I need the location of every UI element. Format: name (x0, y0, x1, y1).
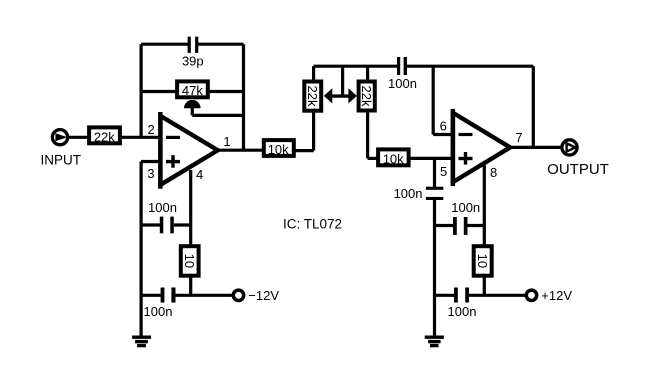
svg-text:5: 5 (440, 164, 447, 179)
wire ground vertical left (140, 162, 143, 337)
wire pin3 (141, 160, 159, 163)
wire pin6 (433, 133, 452, 136)
output connector J2 (562, 140, 577, 155)
svg-text:10k: 10k (383, 152, 404, 167)
capacitor 100n (top middle) (397, 57, 407, 75)
svg-text:INPUT: INPUT (41, 153, 82, 168)
svg-text:100n: 100n (451, 200, 480, 215)
svg-text:10: 10 (475, 254, 490, 268)
wire pin8 stub down (483, 165, 486, 246)
wire feedback vertical left (140, 44, 143, 137)
wire input to 22k (69, 136, 88, 139)
svg-text:2: 2 (147, 122, 154, 137)
capacitor 100n (series, right) (426, 187, 443, 200)
wire 10 to bottom rail right (483, 278, 486, 296)
minus sign U1B (459, 133, 473, 136)
wire 47k row right (209, 90, 244, 93)
svg-text:47k: 47k (182, 83, 203, 98)
plus sign U1A (166, 155, 180, 168)
ground (left) (132, 337, 151, 345)
svg-text:+12V: +12V (541, 288, 572, 303)
svg-text:100n: 100n (144, 304, 173, 319)
svg-text:6: 6 (440, 118, 447, 133)
svg-text:IC: TL072: IC: TL072 (283, 216, 342, 231)
resistor 10 (right) (474, 246, 492, 276)
capacitor 100n (left upper) (141, 217, 191, 234)
svg-text:7: 7 (515, 130, 522, 145)
op-amp U1A (158, 112, 218, 189)
wire pin4 stub down (189, 170, 192, 246)
wiper arrow of 47k (184, 100, 244, 116)
wire 22k to pin2 (121, 136, 159, 139)
svg-text:22k: 22k (305, 86, 320, 107)
plus sign U1B (459, 152, 473, 165)
potentiometer 22k (right gang) (359, 82, 375, 111)
svg-text:1: 1 (223, 134, 230, 149)
svg-text:100n: 100n (148, 200, 177, 215)
wire pot2 bottom to 10k (368, 112, 377, 158)
svg-text:−12V: −12V (248, 288, 279, 303)
wire ground vertical right (433, 200, 436, 337)
svg-text:22k: 22k (94, 130, 115, 145)
resistor 10 (left) (181, 246, 199, 276)
wire feedback vertical right (242, 44, 245, 150)
svg-text:100n: 100n (394, 186, 423, 201)
wire 47k row left (141, 90, 176, 93)
wire 10 to bottom rail (189, 278, 192, 296)
wire 10k to pin5 (410, 157, 453, 160)
bottom rail right / capacitor 100n (right lower) (435, 288, 526, 303)
wire pot1 top stub (312, 66, 315, 81)
svg-text:8: 8 (490, 165, 497, 180)
wire feedback vertical left (U1B) (432, 66, 435, 134)
svg-text:22k: 22k (359, 86, 374, 107)
capacitor 100n (right upper) (435, 217, 485, 235)
wire feedback vertical right (U1B) (532, 66, 535, 147)
svg-text:10: 10 (182, 254, 197, 268)
wire top rail left segment (141, 43, 188, 46)
resistor 10k (left) (264, 140, 294, 156)
svg-text:10k: 10k (268, 142, 289, 157)
wire pot2 top stub (366, 66, 369, 81)
potentiometer 47k (177, 81, 208, 97)
wire U1B output (511, 146, 563, 149)
svg-text:4: 4 (196, 167, 203, 182)
resistor 10k (right) (378, 149, 409, 165)
resistor 22k (input) (89, 127, 120, 143)
svg-text:3: 3 (147, 166, 154, 181)
wiper link of dual pot (324, 66, 357, 103)
svg-text:OUTPUT: OUTPUT (547, 161, 609, 178)
bottom rail left / capacitor 100n (left lower) (141, 288, 232, 303)
input connector J1 (52, 130, 67, 145)
terminal +12V (526, 290, 536, 300)
wire top rail 2 right segment (407, 65, 533, 68)
capacitor 39p (188, 37, 199, 53)
terminal -12V (233, 290, 243, 300)
wire top rail right segment (198, 43, 244, 46)
svg-text:100n: 100n (448, 304, 477, 319)
op-amp U1B (451, 109, 511, 186)
wire 10k to pot1 (295, 112, 314, 151)
wire pin5 vertical down (433, 158, 436, 187)
svg-text:39p: 39p (182, 54, 204, 69)
wire U1A output (218, 149, 262, 152)
ground (right) (425, 337, 444, 345)
potentiometer 22k (left gang) (304, 82, 321, 111)
minus sign U1A (166, 136, 180, 139)
svg-text:100n: 100n (388, 76, 417, 91)
wire top rail 2 left segment (314, 65, 398, 68)
